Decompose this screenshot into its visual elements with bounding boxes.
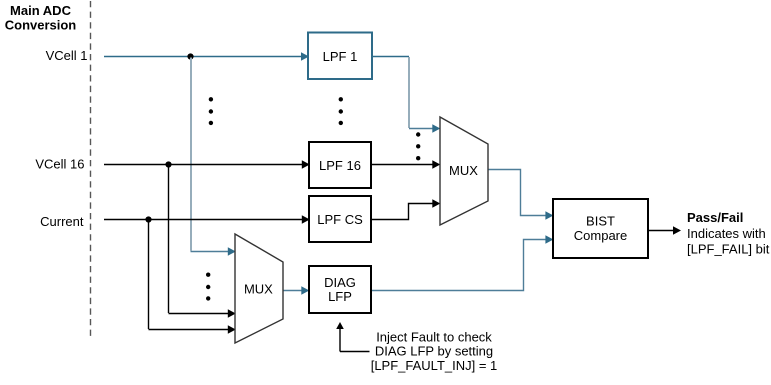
svg-text:LFP: LFP (328, 289, 352, 304)
svg-text:LPF 1: LPF 1 (323, 49, 358, 64)
svg-text:VCell 16: VCell 16 (35, 156, 84, 171)
svg-text:Compare: Compare (574, 228, 627, 243)
svg-text:LPF 16: LPF 16 (319, 158, 361, 173)
svg-text:Current: Current (40, 214, 84, 229)
svg-text:DIAG LFP by setting: DIAG LFP by setting (375, 344, 493, 359)
svg-text:LPF CS: LPF CS (317, 212, 363, 227)
svg-text:Conversion: Conversion (5, 18, 77, 33)
svg-text:Indicates with: Indicates with (687, 226, 766, 241)
svg-text:VCell 1: VCell 1 (46, 48, 88, 63)
svg-text:MUX: MUX (244, 281, 273, 296)
svg-text:MUX: MUX (449, 163, 478, 178)
svg-text:[LPF_FAULT_INJ] = 1: [LPF_FAULT_INJ] = 1 (371, 358, 498, 373)
svg-text:Inject Fault to check: Inject Fault to check (376, 329, 492, 344)
svg-text:DIAG: DIAG (324, 275, 356, 290)
svg-text:BIST: BIST (586, 213, 615, 228)
svg-text:Main ADC: Main ADC (10, 3, 72, 18)
svg-text:Pass/Fail: Pass/Fail (687, 210, 743, 225)
svg-text:[LPF_FAIL] bit: [LPF_FAIL] bit (687, 242, 770, 257)
